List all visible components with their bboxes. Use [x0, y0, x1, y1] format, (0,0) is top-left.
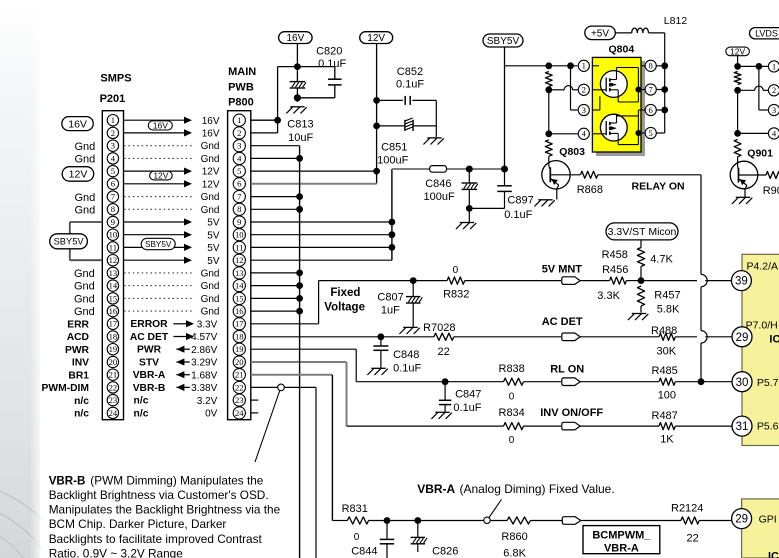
node Q901 mid [734, 87, 741, 94]
svg-text:1: 1 [582, 61, 586, 71]
bracket wire SBY5V to pins 9-12 [70, 222, 103, 260]
svg-text:ERR: ERR [67, 319, 89, 330]
ground below R457 [628, 314, 648, 321]
wire divider to pin39 (with hop) [641, 280, 731, 282]
pin 16 of P800 [233, 305, 245, 317]
svg-text:ACD: ACD [67, 332, 89, 343]
wire RELAY ON vertical with hops [701, 274, 707, 381]
pin 3 of P201 [107, 140, 118, 151]
node 16V junction [294, 63, 301, 70]
node Q804 pin5 internal [635, 130, 641, 136]
pin 2 of P800 [233, 127, 245, 139]
node divider [638, 277, 645, 284]
svg-text:21: 21 [109, 370, 118, 380]
svg-text:0: 0 [509, 435, 515, 446]
svg-text:Backlight Brightness via Custo: Backlight Brightness via Customer's OSD. [49, 488, 269, 502]
wire pin6 P201-P800 with arrow, net 12V [124, 179, 220, 190]
svg-text:13: 13 [109, 268, 118, 278]
svg-text:R832: R832 [443, 288, 469, 300]
wire C852/C851 right join [435, 100, 437, 137]
wire flag to R487 [580, 425, 659, 427]
svg-text:8: 8 [649, 61, 653, 71]
wire pin6 to 12V bus (gray) [251, 183, 377, 185]
svg-text:12: 12 [109, 255, 118, 265]
svg-text:15: 15 [235, 293, 244, 303]
svg-text:4.7K: 4.7K [650, 254, 673, 266]
wire flag to R2124 [581, 520, 681, 522]
svg-text:6.8K: 6.8K [503, 548, 526, 558]
node pin3 branch [567, 62, 574, 69]
capacitor C846 100uF (electrolytic) [424, 169, 478, 208]
node gate mid [545, 86, 552, 93]
pin 12 of P201 [107, 255, 118, 266]
wire pin22 VBR-B with test point [251, 387, 316, 558]
svg-text:C848: C848 [393, 349, 419, 361]
pin 17 of P201 [107, 318, 118, 329]
svg-text:RELAY ON: RELAY ON [632, 181, 685, 193]
ground below C807 [399, 327, 419, 334]
svg-text:PWB: PWB [228, 81, 254, 93]
resistor R485 100 [652, 365, 732, 401]
svg-text:0.1uF: 0.1uF [393, 363, 421, 375]
pin 10 of P800 [233, 229, 245, 241]
net flag INV ON/OFF [540, 407, 603, 430]
svg-text:1.68V: 1.68V [191, 370, 217, 381]
svg-text:1: 1 [237, 115, 241, 125]
pin 11 of P800 [233, 241, 245, 253]
node Gnd bus pin4 [296, 155, 303, 162]
capacitor C826 (electrolytic) [411, 521, 459, 558]
node Gnd bus pin13 [296, 270, 303, 277]
svg-text:5V: 5V [207, 230, 220, 241]
svg-text:R458: R458 [602, 249, 628, 261]
svg-text:23: 23 [235, 395, 244, 405]
wire to LVDS pin2 with hop [738, 86, 769, 90]
IC GPIO block (bottom right) [742, 499, 779, 558]
net label oval 3.3V/ST Micon [606, 223, 678, 240]
pin 12 of P800 [233, 254, 245, 266]
node bus pin8 [661, 62, 668, 69]
transistor Q804 (dual MOSFET, highlighted) [592, 43, 645, 156]
svg-text:14: 14 [109, 281, 118, 291]
svg-text:BCM Chip. Darker Picture, Dark: BCM Chip. Darker Picture, Darker [49, 517, 227, 531]
net label oval 16V (top) [279, 32, 313, 45]
net label oval SBY5V mid-wire [141, 238, 175, 249]
node 12V right top [734, 63, 741, 70]
pin 23 of P800 [233, 394, 245, 406]
svg-text:4: 4 [111, 153, 116, 163]
svg-text:Voltage: Voltage [324, 302, 365, 314]
leader line to VBR-B note [255, 391, 280, 463]
svg-text:VBR-A: VBR-A [417, 482, 455, 496]
svg-text:3.2V: 3.2V [197, 396, 218, 407]
svg-text:Gnd: Gnd [75, 154, 96, 166]
svg-text:3.29V: 3.29V [191, 358, 217, 369]
net label oval +5V [585, 26, 616, 39]
pin 6 of P201 [107, 178, 118, 189]
pin 19 of P201 [107, 344, 118, 355]
label P5.6 [757, 421, 779, 433]
pin 4 of Q804 [578, 128, 589, 139]
svg-text:VBR-B: VBR-B [49, 474, 86, 487]
wire 5V rail to SBY5V rail (gray) [392, 168, 505, 170]
resistor R868 [577, 171, 603, 196]
pin 4 of P800 [233, 152, 245, 164]
MOSFET lower of Q804 [592, 114, 627, 141]
signal row pin23 n/c 3.2V [134, 396, 218, 407]
svg-text:SMPS: SMPS [100, 73, 131, 85]
capacitor C851 100uF (electrolytic) [377, 118, 437, 166]
svg-text:18: 18 [235, 331, 244, 341]
pin 10 of P201 [107, 229, 118, 240]
svg-text:INV ON/OFF: INV ON/OFF [540, 407, 603, 419]
signal row pin19 PWR 2.86V [137, 345, 218, 356]
capacitor C848 0.1uF [373, 337, 421, 375]
pin 30 of IC [732, 372, 752, 392]
wire 5V bus vertical [251, 169, 392, 260]
net label oval 12V (right) [726, 47, 750, 57]
wire flag to R488 [580, 336, 659, 338]
svg-text:Gnd: Gnd [201, 269, 220, 280]
wire pin11 to 5V bus [251, 246, 392, 248]
wire pin1 stub internal [592, 65, 599, 67]
svg-text:VBR-A: VBR-A [133, 370, 166, 381]
node Gnd bus pin16 [296, 308, 303, 315]
node 12V/C852 [373, 97, 380, 104]
svg-text:R2124: R2124 [671, 503, 703, 515]
wire pin24 stub [251, 412, 258, 414]
node LVDS pin4 chain [734, 130, 741, 137]
svg-text:0.1uF: 0.1uF [504, 209, 532, 221]
svg-text:R90: R90 [763, 185, 779, 197]
label Gnd (left) [74, 294, 95, 306]
signal row pin22 VBR-B 3.38V [133, 383, 218, 394]
svg-text:GPI: GPI [759, 514, 777, 526]
wire RELAY ON [598, 175, 701, 275]
svg-text:12V: 12V [69, 169, 88, 181]
signal row pin17 ERROR 3.3V [130, 319, 217, 330]
wire branch to Q804 pin3 [571, 66, 578, 110]
label PWR pin19 (left) [65, 345, 90, 356]
pin 21 of P201 [107, 369, 118, 380]
svg-text:R488: R488 [651, 325, 677, 337]
node 5V bus pin11 [389, 244, 396, 251]
inductor L812 [615, 15, 687, 33]
svg-text:STV: STV [139, 357, 159, 368]
svg-text:Gnd: Gnd [201, 192, 220, 203]
svg-text:30K: 30K [657, 345, 677, 357]
pin 8 of Q804 [641, 60, 656, 71]
svg-text:ERROR: ERROR [130, 319, 168, 330]
svg-text:P5.6: P5.6 [757, 421, 779, 433]
pin 9 of P201 [107, 216, 118, 227]
resistor R834 0 [499, 407, 562, 446]
label Gnd (left) [74, 306, 95, 318]
svg-text:VBR-B: VBR-B [133, 383, 166, 394]
svg-text:3: 3 [772, 105, 776, 115]
svg-text:5V: 5V [207, 218, 220, 229]
svg-text:P201: P201 [100, 93, 126, 105]
svg-text:100uF: 100uF [424, 191, 455, 203]
svg-text:IC: IC [769, 333, 779, 345]
svg-text:16V: 16V [287, 33, 305, 44]
svg-text:0.1uF: 0.1uF [318, 58, 346, 70]
svg-text:0: 0 [453, 265, 459, 276]
svg-text:Gnd: Gnd [75, 192, 96, 204]
svg-text:2: 2 [772, 85, 776, 95]
wire pin8 Gnd (dotted) [124, 205, 220, 216]
wire Q804 internal upper drain/source loop [617, 68, 639, 103]
label Gnd pin4 (left) [75, 154, 96, 166]
svg-text:24: 24 [109, 408, 118, 418]
svg-text:7: 7 [649, 84, 654, 94]
capacitor C813 10uF (electrolytic) [287, 82, 313, 145]
svg-text:6: 6 [111, 179, 116, 189]
wire pin1 P201-P800 with arrow, net 16V [124, 116, 220, 127]
label P5.7 [757, 377, 779, 389]
svg-text:R860: R860 [501, 531, 527, 543]
svg-text:C813: C813 [287, 119, 313, 131]
node 12V/pin5 [373, 168, 380, 175]
svg-text:3.3V/ST Micon: 3.3V/ST Micon [608, 226, 677, 238]
svg-text:PWR: PWR [137, 345, 162, 356]
pin 7 of P800 [233, 191, 245, 203]
svg-text:Backlights to facilitate impro: Backlights to facilitate improved Contra… [49, 532, 263, 546]
svg-text:Gnd: Gnd [201, 281, 220, 292]
node 5V bus pin9 [389, 219, 396, 226]
node pin1 junction [274, 117, 281, 124]
capacitor C897 0.1uF [469, 169, 533, 221]
svg-text:14: 14 [235, 281, 244, 291]
svg-text:1: 1 [772, 61, 776, 71]
svg-text:12V: 12V [367, 33, 385, 44]
wire pin6 stub internal [638, 110, 641, 116]
wire pin12 P201-P800 with arrow, net 5V [124, 256, 220, 267]
svg-text:R7028: R7028 [423, 322, 455, 334]
node C813 bottom junction [294, 94, 301, 101]
wire pin7 Gnd (dotted) [124, 192, 220, 203]
svg-text:30: 30 [736, 377, 749, 389]
wire 12V right vertical [737, 56, 739, 67]
wire C844-C826 segment [387, 520, 418, 522]
pin 24 of P201 [107, 407, 118, 418]
svg-text:n/c: n/c [74, 396, 89, 407]
wire pin5 P201-P800 with arrow, net 12V [124, 167, 220, 178]
label IC (upper) [769, 333, 779, 345]
label n/c pin24 (left) [74, 409, 89, 420]
pin 29 of IC [732, 327, 752, 347]
test point circle VBR-A [484, 517, 490, 523]
wire branch to LVDS pin3 [759, 66, 768, 110]
pin 2 of P201 [107, 127, 118, 138]
svg-text:AC DET: AC DET [130, 332, 169, 343]
net label 16V (left) [62, 117, 94, 131]
resistor (Q901 gate upper) [734, 72, 741, 85]
svg-text:2: 2 [237, 128, 241, 138]
net label oval 12V (top) [360, 32, 393, 45]
pin 1 of P800 [233, 114, 245, 126]
svg-text:Gnd: Gnd [201, 154, 220, 165]
pin 3 of P800 [233, 140, 245, 152]
pin 7 of Q804 [641, 84, 656, 95]
node Gnd bus pin15 [296, 295, 303, 302]
svg-text:3: 3 [237, 141, 241, 151]
MOSFET upper of Q804 [592, 71, 627, 98]
svg-text:SBY5V: SBY5V [487, 36, 520, 47]
svg-text:9: 9 [111, 217, 115, 227]
node R chain top [545, 62, 552, 69]
pin 9 of P800 [233, 216, 245, 228]
node 5V MNT / C807 [410, 277, 417, 284]
connector P201 (SMPS) body [100, 73, 132, 420]
wire to LVDS pin1 [738, 65, 769, 67]
svg-text:7: 7 [111, 192, 116, 202]
capacitor C844 [351, 521, 394, 558]
svg-text:BR1: BR1 [68, 370, 89, 381]
svg-text:R834: R834 [499, 407, 525, 419]
svg-text:2.86V: 2.86V [191, 345, 217, 356]
svg-text:1uF: 1uF [381, 304, 400, 316]
svg-text:Q901: Q901 [747, 148, 773, 160]
label P4.2/A [747, 260, 779, 272]
pin 19 of P800 [233, 343, 245, 355]
test point circle pin22 [278, 384, 285, 391]
svg-text:10: 10 [109, 230, 118, 240]
wire pin18 AC DET row [251, 336, 434, 338]
svg-text:24: 24 [235, 408, 244, 418]
pin 15 of P201 [107, 293, 118, 304]
svg-text:5: 5 [649, 128, 653, 138]
node 12V/C851 [373, 123, 380, 130]
ground below C848 [367, 368, 387, 375]
pin 22 of P201 [107, 382, 118, 393]
pin 14 of P800 [233, 280, 245, 292]
svg-text:VBR-A: VBR-A [604, 543, 639, 555]
resistor (Q804 gate upper) [545, 72, 552, 87]
ground below Q803 [534, 200, 554, 207]
svg-text:5V MNT: 5V MNT [542, 264, 583, 276]
svg-text:(PWM Dimming) Manipulates the: (PWM Dimming) Manipulates the [90, 473, 264, 487]
pin 21 of P800 [233, 369, 245, 381]
svg-text:LVDS: LVDS [755, 28, 778, 38]
resistor R902 (clipped) [763, 172, 779, 198]
svg-text:4: 4 [237, 153, 242, 163]
pin 2 of LVDS connector [768, 85, 779, 96]
svg-text:Q804: Q804 [609, 43, 635, 55]
signal row pin20 STV 3.29V [139, 357, 218, 368]
ground below C851/C852 [423, 138, 443, 145]
svg-text:19: 19 [109, 344, 118, 354]
IC U-micon block (P4.2/P7.0/P5.7/P5.6) [742, 254, 779, 445]
label Gnd (left) [74, 281, 95, 293]
svg-text:R457: R457 [654, 290, 680, 302]
svg-text:16V: 16V [68, 118, 87, 130]
svg-text:5: 5 [237, 166, 241, 176]
svg-text:3: 3 [111, 141, 115, 151]
wire flag to R456 [580, 280, 609, 282]
label INV pin20 (left) [72, 358, 89, 369]
svg-text:Ratio. 0.9V ~ 3.2V Range: Ratio. 0.9V ~ 3.2V Range [49, 547, 184, 558]
node 5V bus pin10 [389, 231, 396, 238]
jumper link (open box) on rail [430, 166, 447, 173]
wire pin20 STV to INV row (gray) [251, 362, 504, 426]
pin 4 of P201 [107, 153, 118, 164]
resistor R7028 22 [423, 322, 561, 358]
transistor Q901 (PNP) [730, 148, 773, 198]
svg-text:17: 17 [109, 319, 118, 329]
resistor R487 1K [652, 410, 732, 446]
svg-text:8: 8 [111, 204, 115, 214]
svg-text:7: 7 [237, 192, 242, 202]
svg-text:Gnd: Gnd [74, 306, 95, 318]
label PWM-DIM pin22 (left) [42, 383, 89, 394]
pin 5 of P800 [233, 165, 245, 177]
svg-text:P7.0/H: P7.0/H [746, 320, 778, 332]
net label oval 16V mid-wire [148, 121, 172, 131]
svg-text:4: 4 [772, 128, 777, 138]
svg-text:100uF: 100uF [377, 154, 408, 166]
resistor R456 3.3K [597, 264, 641, 302]
capacitor C847 0.1uF [439, 382, 482, 414]
resistor R457 5.8K [637, 286, 680, 316]
svg-text:4: 4 [582, 129, 587, 139]
pin 18 of P800 [233, 330, 245, 342]
pin 5 of P201 [107, 165, 118, 176]
wire pin19 PWR to RL ON row [251, 349, 445, 382]
label P7.0/H [746, 320, 778, 332]
svg-text:C897: C897 [507, 195, 533, 207]
wire 12V vertical bus [376, 44, 378, 184]
svg-text:10: 10 [235, 230, 244, 240]
svg-text:Q803: Q803 [559, 146, 585, 158]
pin 29 of GPIO IC [732, 509, 752, 529]
wire SBY5V vertical [504, 47, 506, 169]
svg-text:22: 22 [109, 382, 118, 392]
ground below Q901 [732, 197, 752, 204]
ground below C847 [431, 412, 451, 419]
signal row pin24 n/c 0V [134, 408, 218, 419]
svg-text:P4.2/A: P4.2/A [747, 260, 779, 272]
transistor Q803 (PNP) [542, 146, 585, 200]
signal row pin18 AC DET 4.57V [130, 332, 218, 343]
signal row pin21 VBR-A 1.68V [133, 370, 218, 381]
resistor R458 4.7K [602, 240, 674, 281]
pin 8 of P800 [233, 203, 245, 215]
ground below C846 [456, 208, 476, 229]
pin 6 of Q804 [641, 104, 656, 115]
svg-text:17: 17 [235, 319, 244, 329]
wire pin16 Gnd (dotted) [124, 307, 220, 318]
net label oval LVDS [750, 28, 779, 39]
pin 13 of P201 [107, 267, 118, 278]
pin 14 of P201 [107, 280, 118, 291]
node RELAY ON joins RL ON [698, 378, 705, 385]
wire pin4 Gnd (dotted) [124, 154, 220, 165]
pin 7 of P201 [107, 191, 118, 202]
svg-text:C807: C807 [377, 291, 403, 303]
svg-text:Gnd: Gnd [201, 294, 220, 305]
svg-text:21: 21 [235, 370, 244, 380]
svg-text:n/c: n/c [74, 409, 89, 420]
wire pin23 stub [251, 399, 258, 401]
wire pin21 VBR-A (gray) down to analog dim row [251, 375, 348, 521]
label Gnd (left) [74, 268, 95, 280]
svg-text:100: 100 [658, 389, 676, 401]
svg-text:R838: R838 [499, 363, 525, 375]
wire pin11 P201-P800 with arrow, net 5V [124, 243, 220, 254]
svg-text:RL ON: RL ON [550, 364, 584, 376]
svg-text:1K: 1K [660, 434, 674, 446]
